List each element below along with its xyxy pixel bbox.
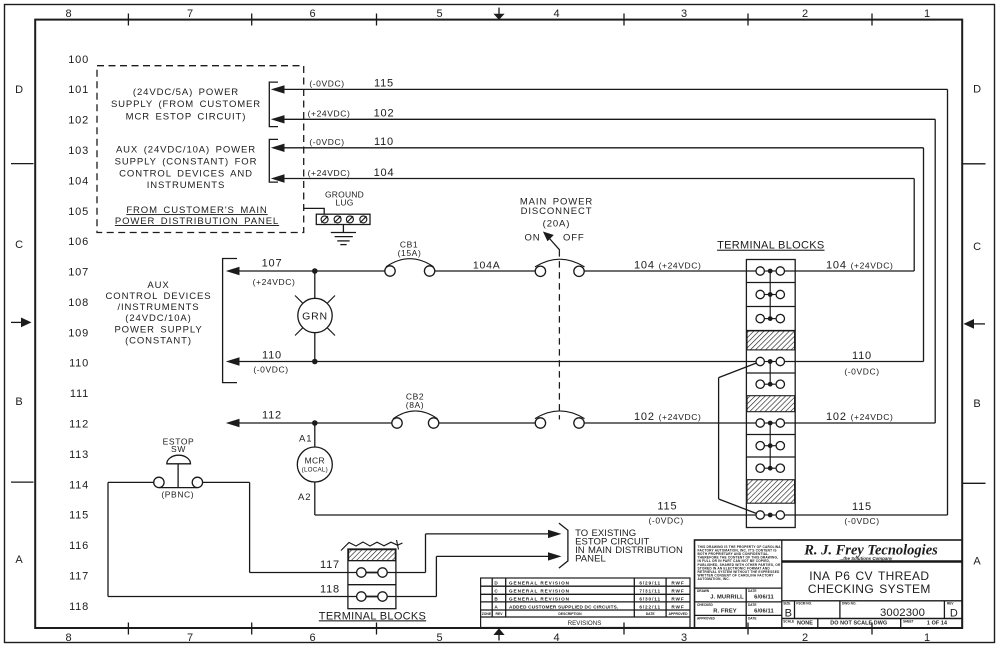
main power disconnect label	[520, 196, 593, 243]
svg-text:111: 111	[70, 388, 89, 400]
svg-text:6/29/11: 6/29/11	[639, 581, 661, 586]
company logo text	[803, 543, 938, 561]
svg-text:(-0VDC): (-0VDC)	[649, 515, 684, 525]
svg-text:115: 115	[852, 501, 872, 513]
wire 110 (-0VDC) bus	[226, 350, 924, 377]
power supply dashed box PS1/PS2	[97, 66, 304, 233]
wire ESTOP left leg to 118	[108, 482, 357, 596]
svg-text:CHECKING SYSTEM: CHECKING SYSTEM	[808, 582, 931, 596]
svg-text:REV: REV	[947, 602, 954, 606]
wire 102 line 102 (+24VDC)	[271, 108, 935, 424]
svg-text:B: B	[785, 608, 792, 620]
svg-text:(+24VDC): (+24VDC)	[308, 168, 351, 178]
svg-text:2: 2	[802, 8, 809, 20]
terminal block TB row 6	[756, 380, 785, 388]
svg-text:RWF: RWF	[671, 589, 684, 594]
svg-text:B: B	[15, 396, 23, 408]
svg-text:A: A	[973, 555, 981, 567]
svg-text:8: 8	[66, 8, 73, 20]
junction node A1 on 112	[312, 420, 318, 426]
svg-text:109: 109	[68, 327, 89, 339]
svg-text:AUX (24VDC/10A) POWER: AUX (24VDC/10A) POWER	[116, 145, 256, 156]
svg-text:D: D	[973, 83, 982, 95]
svg-text:5: 5	[437, 8, 444, 20]
jumper link rows 8-10	[769, 423, 771, 468]
svg-text:3: 3	[681, 632, 688, 644]
svg-text:105: 105	[68, 206, 89, 218]
right terminal block body	[746, 260, 795, 528]
ground lug GL1	[304, 190, 370, 225]
circuit breaker CB2 (8A)	[392, 391, 439, 428]
terminal block TB row 5	[756, 357, 785, 365]
svg-text:DISCONNECT: DISCONNECT	[521, 206, 593, 217]
jumper wire row5 to row12 (0VDC bond)	[719, 363, 757, 514]
svg-text:INSTRUMENTS: INSTRUMENTS	[147, 180, 226, 191]
svg-text:C: C	[973, 241, 982, 253]
svg-text:1: 1	[924, 8, 931, 20]
svg-text:(PBNC): (PBNC)	[161, 490, 194, 500]
svg-text:CONTROL DEVICES: CONTROL DEVICES	[106, 291, 212, 302]
terminal 117	[320, 559, 387, 577]
svg-text:SW: SW	[171, 444, 186, 454]
title block	[695, 540, 963, 628]
svg-text:C: C	[494, 589, 498, 594]
disclaimer fine print	[698, 545, 782, 581]
svg-text:D: D	[15, 84, 24, 96]
svg-text:(+24VDC): (+24VDC)	[253, 277, 296, 287]
svg-text:110: 110	[262, 350, 282, 362]
svg-text:101: 101	[68, 84, 89, 96]
drawing title	[808, 569, 931, 596]
wire 104A	[435, 260, 535, 272]
svg-text:102 (+24VDC): 102 (+24VDC)	[634, 411, 701, 423]
svg-text:REV: REV	[496, 612, 504, 616]
svg-text:DO NOT SCALE DWG: DO NOT SCALE DWG	[830, 621, 887, 627]
svg-text:GENERAL REVISION: GENERAL REVISION	[509, 581, 570, 586]
svg-text:108: 108	[68, 297, 89, 309]
svg-text:A: A	[15, 554, 23, 566]
svg-text:(24VDC/5A) POWER: (24VDC/5A) POWER	[133, 87, 239, 98]
svg-text:DATE: DATE	[748, 603, 756, 607]
svg-text:REVISIONS: REVISIONS	[568, 620, 602, 627]
wire 102 to terminal block row 8	[584, 411, 756, 423]
svg-text:104: 104	[374, 167, 395, 179]
svg-text:(15A): (15A)	[398, 248, 422, 258]
wire 118 to existing estop circuit	[387, 556, 549, 596]
svg-text:A: A	[494, 604, 498, 609]
svg-text:6: 6	[310, 8, 317, 20]
svg-text:AUTOMATION, INC.: AUTOMATION, INC.	[698, 577, 730, 581]
svg-text:GENERAL REVISION: GENERAL REVISION	[509, 589, 570, 594]
svg-text:CONTROL DEVICES AND: CONTROL DEVICES AND	[119, 169, 253, 180]
pilot lamp GRN	[295, 271, 335, 362]
svg-text:RWF: RWF	[671, 581, 684, 586]
brace to existing panel	[559, 523, 568, 568]
svg-text:(-0VDC): (-0VDC)	[309, 79, 344, 89]
svg-text:TERMINAL BLOCKS: TERMINAL BLOCKS	[717, 240, 824, 252]
svg-text:DATE: DATE	[646, 612, 656, 616]
svg-text:115: 115	[374, 78, 394, 90]
svg-text:3002300: 3002300	[880, 607, 925, 619]
svg-text:112: 112	[69, 419, 89, 431]
ground symbol	[331, 225, 356, 245]
disconnect linkage dashed line	[558, 250, 560, 419]
svg-text:GRN: GRN	[302, 311, 328, 323]
wire 104 line 104 (+24VDC)	[271, 167, 914, 271]
ESTOP SW pushbutton (PBNC)	[154, 436, 203, 499]
svg-text:118: 118	[320, 583, 340, 595]
svg-text:DRAWN: DRAWN	[697, 589, 710, 593]
svg-text:110: 110	[69, 358, 89, 370]
svg-text:A2: A2	[298, 492, 311, 503]
svg-text:112: 112	[262, 409, 282, 421]
svg-text:6/06/11: 6/06/11	[754, 608, 774, 614]
svg-text:8: 8	[66, 632, 73, 644]
svg-text:(+24VDC): (+24VDC)	[308, 108, 351, 118]
wire row12 right to 115 riser	[785, 501, 948, 526]
wire 107 (+24VDC)	[226, 257, 385, 287]
svg-text:118: 118	[69, 601, 89, 613]
wire 104 to terminal block row 1	[584, 259, 756, 271]
terminal block TB row 8	[756, 419, 785, 427]
terminal block TB row 9	[756, 442, 785, 450]
svg-text:AUX: AUX	[147, 280, 169, 291]
svg-text:6/06/11: 6/06/11	[754, 595, 774, 601]
svg-text:117: 117	[69, 570, 89, 582]
svg-text:APPROVED: APPROVED	[668, 612, 688, 616]
svg-text:TERMINAL BLOCKS: TERMINAL BLOCKS	[319, 610, 426, 622]
svg-text:1 OF 14: 1 OF 14	[927, 621, 947, 627]
svg-text:FSCM NO.: FSCM NO.	[796, 602, 812, 606]
svg-text:(-0VDC): (-0VDC)	[253, 365, 288, 375]
svg-text:1: 1	[924, 632, 931, 644]
svg-text:DESCRIPTION: DESCRIPTION	[558, 612, 582, 616]
svg-text:115: 115	[69, 510, 89, 522]
svg-text:POWER DISTRIBUTION PANEL: POWER DISTRIBUTION PANEL	[115, 216, 279, 227]
svg-text:7/31/11: 7/31/11	[639, 589, 661, 594]
svg-text:2: 2	[802, 632, 809, 644]
svg-text:4: 4	[554, 632, 561, 644]
wire 117 to existing estop circuit	[387, 534, 549, 573]
svg-text:7: 7	[187, 8, 194, 20]
bracket PS2	[269, 139, 278, 182]
svg-text:114: 114	[69, 479, 89, 491]
svg-text:(-0VDC): (-0VDC)	[844, 367, 879, 377]
svg-text:DWG NO.: DWG NO.	[842, 602, 856, 606]
svg-text:D: D	[950, 608, 958, 620]
svg-text:6: 6	[310, 632, 317, 644]
svg-text:PANEL: PANEL	[575, 553, 606, 564]
svg-text:100: 100	[68, 54, 89, 66]
jumper link rows 1-3	[769, 271, 771, 319]
svg-text:4: 4	[554, 8, 561, 20]
svg-text:ON: ON	[524, 232, 540, 243]
terminal 118	[320, 583, 387, 601]
svg-text:104A: 104A	[473, 260, 501, 272]
svg-text:3: 3	[681, 8, 688, 20]
svg-text:107: 107	[68, 267, 89, 279]
wire row1 right to 104 riser	[785, 259, 915, 271]
svg-text:LUG: LUG	[335, 198, 353, 208]
svg-text:A1: A1	[299, 433, 312, 444]
svg-text:SUPPLY (FROM CUSTOMER: SUPPLY (FROM CUSTOMER	[111, 99, 261, 110]
svg-text:6/30/11: 6/30/11	[639, 596, 661, 601]
junction node on 107	[312, 268, 318, 274]
main power disconnect switch pole 1	[535, 259, 585, 276]
bracket PS1	[269, 82, 278, 127]
svg-text:110: 110	[852, 350, 872, 362]
svg-text:NONE: NONE	[797, 621, 813, 627]
svg-text:DATE: DATE	[748, 589, 756, 593]
svg-text:SHEET: SHEET	[903, 619, 914, 623]
svg-text:ADDED CUSTOMER SUPPLIED DC CIR: ADDED CUSTOMER SUPPLIED DC CIRCUITS.	[509, 604, 618, 609]
line number labels 100-118	[68, 54, 89, 613]
svg-text:J. MURRILL: J. MURRILL	[710, 595, 744, 601]
revisions table	[481, 578, 690, 628]
svg-text:(LOCAL): (LOCAL)	[302, 467, 328, 474]
jumper link rows 5-6	[769, 362, 771, 385]
svg-text:/INSTRUMENTS: /INSTRUMENTS	[117, 302, 199, 313]
svg-text:116: 116	[69, 540, 89, 552]
svg-text:7: 7	[187, 632, 194, 644]
svg-text:RWF: RWF	[671, 596, 684, 601]
circuit breaker CB1 (15A)	[385, 240, 435, 277]
svg-text:(-0VDC): (-0VDC)	[309, 137, 344, 147]
svg-text:110: 110	[374, 136, 394, 148]
svg-text:(CONSTANT): (CONSTANT)	[125, 336, 192, 347]
svg-text:102: 102	[374, 108, 395, 120]
terminal block TB row 3	[756, 314, 785, 322]
svg-text:...the Solutions Company: ...the Solutions Company	[840, 556, 893, 561]
bracket AUX loads	[223, 259, 237, 383]
svg-text:OFF: OFF	[563, 232, 585, 243]
relay coil MCR (LOCAL)	[297, 423, 332, 515]
svg-text:107: 107	[262, 257, 283, 269]
svg-text:DATE: DATE	[748, 616, 756, 620]
svg-text:MCR: MCR	[305, 456, 325, 466]
terminal block TB row 1	[756, 267, 785, 275]
svg-text:APPROVED: APPROVED	[697, 616, 716, 620]
svg-text:104 (+24VDC): 104 (+24VDC)	[826, 259, 893, 271]
main power disconnect switch pole 2	[535, 411, 585, 428]
terminal block TB row 10	[756, 464, 785, 472]
svg-text:(24VDC/10A): (24VDC/10A)	[125, 313, 191, 324]
svg-text:106: 106	[68, 236, 89, 248]
wire ESTOP right leg to 117	[203, 482, 357, 572]
svg-text:POWER SUPPLY: POWER SUPPLY	[114, 325, 202, 336]
svg-text:B: B	[973, 398, 981, 410]
svg-text:C: C	[15, 239, 24, 251]
bottom terminal blocks	[341, 540, 403, 609]
disconnect handle	[543, 232, 560, 251]
wire 110 line 103 (-0VDC)	[271, 136, 924, 361]
svg-text:(20A): (20A)	[543, 219, 571, 230]
svg-text:SUPPLY (CONSTANT) FOR: SUPPLY (CONSTANT) FOR	[115, 157, 258, 168]
svg-text:R. FREY: R. FREY	[713, 608, 737, 614]
note TO EXISTING ESTOP CIRCUIT	[575, 528, 683, 565]
svg-text:MCR ESTOP CIRCUIT): MCR ESTOP CIRCUIT)	[126, 112, 247, 123]
AUX power supply note text	[106, 280, 212, 347]
terminal block TB row 2	[756, 290, 785, 298]
svg-text:ZONE: ZONE	[482, 612, 492, 616]
svg-text:6/22/11: 6/22/11	[639, 604, 661, 609]
wire 115 line 101 (-0VDC)	[271, 78, 948, 515]
svg-text:117: 117	[320, 559, 340, 571]
wire CB2 to disconnect	[439, 422, 535, 424]
svg-text:115: 115	[657, 500, 677, 512]
svg-text:103: 103	[68, 145, 89, 157]
svg-text:CHECKED: CHECKED	[697, 603, 713, 607]
junction node on 110	[312, 359, 318, 365]
svg-text:RWF: RWF	[671, 604, 684, 609]
wire row8 right to 102 riser	[785, 411, 936, 423]
svg-text:GENERAL REVISION: GENERAL REVISION	[509, 596, 570, 601]
svg-text:102 (+24VDC): 102 (+24VDC)	[826, 411, 893, 423]
svg-text:113: 113	[69, 449, 89, 461]
terminal block TB row 12	[756, 511, 785, 519]
svg-text:(8A): (8A)	[406, 400, 424, 410]
svg-text:D: D	[494, 581, 498, 586]
wire 112	[226, 409, 392, 427]
wire 115 from MCR A2 to terminal row 12	[315, 500, 756, 525]
svg-text:102: 102	[68, 115, 89, 127]
svg-text:SCALE: SCALE	[783, 619, 794, 623]
svg-text:5: 5	[437, 632, 444, 644]
svg-text:(-0VDC): (-0VDC)	[844, 516, 879, 526]
svg-text:104: 104	[68, 175, 89, 187]
svg-text:SIZE: SIZE	[783, 602, 790, 606]
svg-text:B: B	[494, 596, 498, 601]
svg-text:104 (+24VDC): 104 (+24VDC)	[634, 259, 701, 271]
title block fields	[697, 589, 954, 623]
svg-text:FROM CUSTOMER'S MAIN: FROM CUSTOMER'S MAIN	[126, 205, 267, 216]
